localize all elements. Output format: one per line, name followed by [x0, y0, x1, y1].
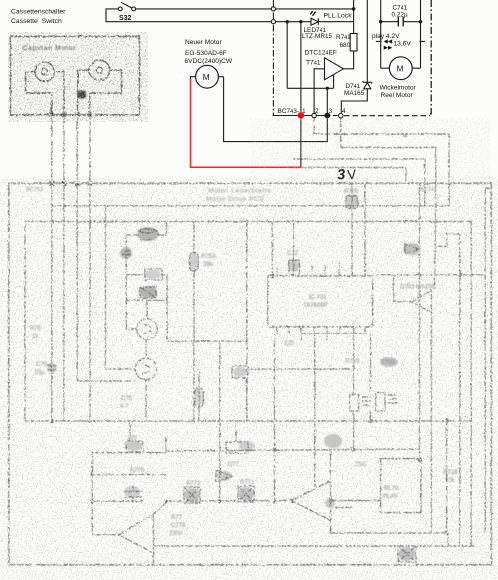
node crossing ticks	[50, 113, 93, 186]
svg-text:M: M	[397, 65, 404, 74]
resistor oval mid	[198, 369, 200, 421]
wire x=219.8	[219, 341, 221, 501]
svg-text:PLL Lock: PLL Lock	[324, 13, 353, 20]
transistor triangle mid right	[412, 291, 432, 313]
wire S32 bracket to y=21.7 rail	[106, 9, 301, 22]
wire x=460	[459, 234, 461, 546]
wire x=419.5	[419, 184, 421, 459]
resistor X box 1	[184, 487, 200, 503]
node pin2	[312, 113, 316, 117]
wire x=246.8	[246, 222, 248, 422]
wire y=533	[330, 533, 448, 546]
node pin4	[339, 114, 343, 118]
motor M741 reel	[381, 57, 421, 80]
component blob 2	[145, 269, 162, 280]
opamp triangle 2	[291, 481, 330, 521]
wire verticals from pcb top into ic region	[352, 184, 365, 266]
wire right motor brackets	[78, 70, 90, 115]
svg-text:DTC124EF: DTC124EF	[305, 50, 337, 57]
connector BC743 row	[273, 115, 430, 117]
scan noise overlay	[0, 0, 1, 1]
svg-text:Neuer Motor: Neuer Motor	[185, 39, 222, 46]
wire x=485.3 right	[485, 188, 491, 533]
svg-text:Cassette Switch: Cassette Switch	[11, 18, 62, 25]
wire row y=449	[166, 449, 420, 451]
svg-text:play 4.2V: play 4.2V	[372, 33, 400, 40]
wire bus y=421	[25, 420, 471, 422]
svg-text:BC743-: BC743-	[278, 108, 300, 115]
diode D741 MA165 zener	[341, 0, 371, 113]
right area: wire y=274.8 from ic to right rail	[373, 274, 486, 276]
opamp triangle bottom left	[119, 514, 154, 553]
wire pin3 down to reel-left rail	[224, 77, 328, 142]
wire y=369	[247, 368, 352, 370]
svg-text:MA165: MA165	[344, 90, 365, 97]
wire pin1 down	[300, 119, 302, 167]
capacitor pair lower mid	[350, 395, 359, 412]
component box on ic pin	[289, 260, 300, 275]
component on bottom edge	[398, 546, 416, 562]
motor capstan right	[89, 60, 109, 80]
capstan motor box	[11, 36, 140, 114]
wire x=193.9 with resistor R	[193, 222, 195, 253]
svg-text:13,6V: 13,6V	[394, 41, 412, 48]
resistor X box 2	[238, 486, 254, 502]
ic IC740 box	[268, 276, 373, 327]
svg-text:6VDC(2400)CW: 6VDC(2400)CW	[185, 58, 233, 65]
component blob near x=352	[346, 196, 358, 209]
wire capstan leads inside pcb	[51, 184, 53, 421]
wire LED anode	[301, 21, 311, 23]
LED D741 LTZ-MR15	[310, 11, 318, 25]
capacitor bars on x=51.8	[48, 366, 57, 371]
component blob 3 dark	[140, 287, 156, 298]
capacitor dark blob on rail	[122, 246, 131, 259]
resistor R741 680	[350, 34, 357, 52]
wire gray rail 3	[293, 159, 425, 206]
wire y=341	[167, 340, 247, 342]
svg-text:M: M	[203, 73, 210, 82]
motor capstan left	[35, 62, 54, 81]
motor M742 Neuer	[191, 65, 224, 88]
capacitor C741 0.22u loop	[379, 0, 422, 68]
wire base of T741 to pin2	[314, 69, 324, 114]
svg-text:D741: D741	[346, 83, 361, 90]
node pin3	[324, 113, 330, 119]
label 3V handwritten	[337, 167, 357, 184]
wire x=353.6 mid	[353, 334, 355, 394]
wire x=446.6	[446, 421, 448, 533]
svg-text:C741: C741	[393, 5, 408, 12]
svg-text:Reel Motor: Reel Motor	[381, 92, 414, 99]
resistor R oval	[190, 252, 199, 271]
svg-text:0.22µ: 0.22µ	[392, 12, 408, 19]
pcb outline box	[9, 183, 492, 565]
resistor row y=501.5	[166, 500, 291, 503]
svg-text:680: 680	[340, 42, 351, 49]
wire gray rail 4	[287, 168, 406, 185]
ic pins bottom	[277, 327, 365, 340]
wire x=91.5 lower left	[91, 453, 93, 535]
label Cassettenschalter	[11, 9, 66, 25]
relay box right	[381, 459, 421, 513]
wire left rail x=25	[24, 222, 26, 422]
transistor Q1	[137, 319, 158, 340]
wire top rail y=8.9	[136, 8, 354, 10]
wire y=274.8 branch	[126, 274, 143, 276]
wire node to pin3	[326, 88, 328, 113]
node junction dots on y=21.7	[286, 7, 356, 23]
wire pin2 gray to pcb	[314, 118, 449, 206]
wire x=105.5	[106, 206, 136, 369]
component smudges	[47, 195, 421, 561]
wire capstan leads down to pcb	[52, 115, 90, 184]
wire y=300.3	[126, 300, 167, 341]
junction smudge between motors	[78, 91, 87, 99]
wire emitter of T741	[287, 75, 333, 89]
wire x=272.4 into IC corner	[271, 222, 273, 276]
transistor T741 DTC124EF	[325, 58, 344, 80]
resistor cluster component 1	[139, 229, 157, 233]
component stack lower left	[126, 441, 143, 452]
wire to x=126.2 rail and Q1 base	[126, 235, 139, 329]
wire red highlight to Neuer motor	[191, 79, 301, 168]
wire pin4 gray to pcb	[341, 118, 436, 291]
wire vertical x=353.6 top	[353, 0, 355, 34]
component blob mid	[232, 366, 248, 378]
switch S32	[118, 2, 135, 22]
wire bus y=206	[52, 205, 449, 207]
wire x=287.2 from rail to emitter node	[286, 22, 288, 89]
fuzzy labels in scan	[26, 131, 458, 537]
svg-text:Wickelmotor: Wickelmotor	[380, 84, 417, 91]
wire y=546	[154, 545, 476, 547]
node emitter junction	[326, 87, 329, 90]
transistor Q2	[135, 358, 157, 380]
component blob diode right	[405, 244, 419, 254]
wire x=370.5 mid	[370, 334, 372, 393]
svg-text:LTZ-MR15: LTZ-MR15	[302, 33, 333, 40]
wire x=300.9 rail to pin1	[300, 22, 302, 112]
svg-text:Cassettenschalter: Cassettenschalter	[11, 9, 66, 16]
svg-text:T741: T741	[306, 60, 321, 67]
connector circles on boundary line	[271, 0, 275, 116]
svg-text:S32: S32	[119, 15, 132, 22]
annotation play 4.2V / 13.6V	[372, 33, 411, 50]
svg-text:R741: R741	[336, 34, 351, 41]
svg-text:EG-530AD-6F: EG-530AD-6F	[185, 50, 227, 57]
wire bus y=221.5	[25, 221, 473, 223]
node pin1 red	[298, 112, 305, 119]
wire LED cathode to R741 column	[318, 21, 353, 23]
wire x=471.2 right	[470, 222, 472, 547]
wire left motor brackets	[26, 72, 52, 115]
wire x=166.4 from bus to R cluster	[158, 222, 167, 236]
diode blob above row	[216, 470, 232, 482]
wire y=381	[77, 380, 135, 382]
wire R741 to T741 collector	[343, 51, 353, 69]
ic pins top	[277, 260, 365, 276]
boundary dash-dot right	[429, 0, 432, 114]
wire x=274.5	[274, 334, 276, 502]
